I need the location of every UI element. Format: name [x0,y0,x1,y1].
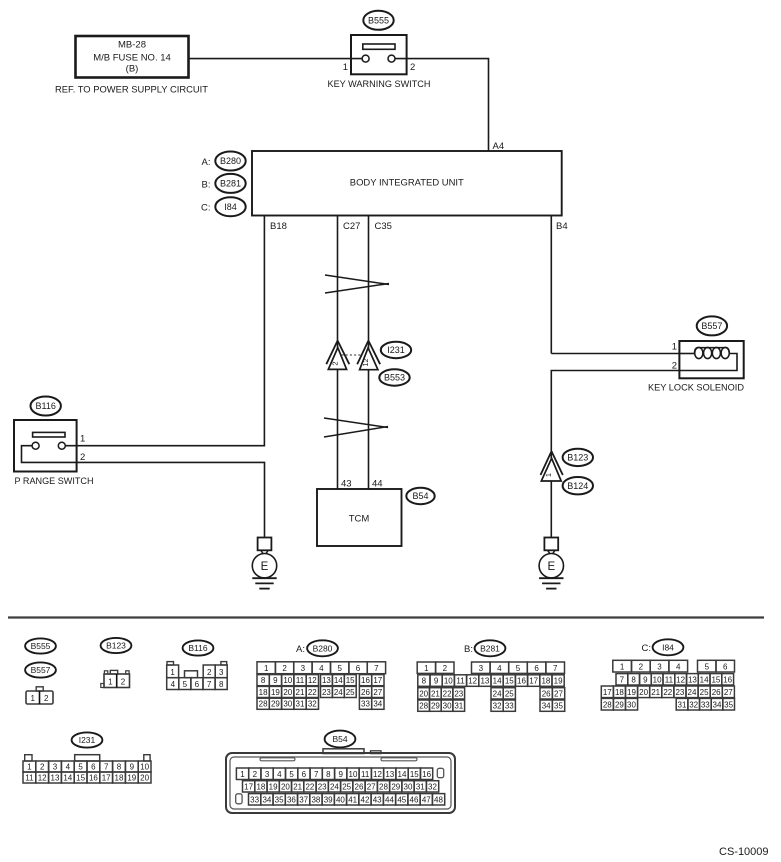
svg-text:13: 13 [51,773,60,782]
svg-text:5: 5 [78,762,83,771]
svg-text:24: 24 [688,688,697,697]
svg-text:4: 4 [66,762,71,771]
svg-text:30: 30 [404,782,413,791]
svg-text:1: 1 [620,662,625,671]
svg-text:8: 8 [261,676,266,685]
svg-text:28: 28 [419,702,428,711]
svg-text:2: 2 [639,662,644,671]
svg-text:B280: B280 [313,643,333,653]
svg-text:14: 14 [63,773,72,782]
svg-text:34: 34 [262,795,271,804]
svg-text:6: 6 [534,664,539,673]
svg-text:M/B FUSE NO. 14: M/B FUSE NO. 14 [93,53,171,64]
svg-text:19: 19 [554,677,563,686]
connector oval B54 (bottom) [325,731,356,748]
svg-text:1: 1 [264,664,269,673]
svg-text:44: 44 [372,479,383,490]
wire P range switch pin 2 to ground [77,462,265,538]
svg-text:5: 5 [337,664,342,673]
svg-text:8: 8 [117,762,122,771]
svg-text:20: 20 [639,688,648,697]
svg-text:21: 21 [431,689,440,698]
ground E right [548,550,550,554]
svg-text:29: 29 [431,702,440,711]
svg-text:B557: B557 [701,321,722,331]
svg-text:1: 1 [108,678,113,687]
svg-text:27: 27 [367,782,376,791]
svg-text:9: 9 [434,677,439,686]
svg-text:B124: B124 [567,481,588,491]
ground symbol right [539,577,563,579]
svg-text:15: 15 [410,770,419,779]
svg-text:E: E [261,561,269,573]
svg-text:34: 34 [542,702,551,711]
svg-text:2: 2 [253,770,258,779]
connector oval I231 [381,342,411,358]
svg-text:B116: B116 [188,643,207,653]
svg-text:30: 30 [283,700,292,709]
wire solenoid pin 2 down [551,371,679,460]
svg-text:26: 26 [542,689,551,698]
svg-text:10: 10 [444,677,453,686]
wire BIU C27 down [337,216,339,349]
svg-text:33: 33 [361,700,370,709]
svg-text:31: 31 [678,700,687,709]
inline connector triangle pin 12 (right) [357,341,368,365]
svg-text:BODY INTEGRATED UNIT: BODY INTEGRATED UNIT [350,178,464,189]
svg-text:32: 32 [493,702,502,711]
svg-text:46: 46 [410,795,419,804]
svg-text:C27: C27 [343,221,360,232]
svg-text:28: 28 [603,700,612,709]
svg-text:5: 5 [705,662,710,671]
svg-text:2: 2 [410,62,415,73]
P range switch [14,420,77,472]
svg-text:17: 17 [373,676,382,685]
svg-text:19: 19 [627,688,636,697]
svg-text:B123: B123 [106,641,126,651]
svg-text:17: 17 [529,677,538,686]
connector oval B555 [363,11,393,30]
svg-text:1: 1 [30,694,35,703]
svg-text:12: 12 [38,773,47,782]
ground terminal square left [258,538,272,551]
svg-text:1: 1 [544,473,553,477]
svg-text:37: 37 [299,795,308,804]
svg-text:2: 2 [282,664,287,673]
connector I231 pinout [25,755,32,761]
svg-text:14: 14 [398,770,407,779]
svg-text:3: 3 [219,668,224,677]
svg-text:23: 23 [322,688,331,697]
wire BIU B4 down [550,216,552,354]
svg-text:TCM: TCM [349,514,370,525]
svg-text:7: 7 [104,762,109,771]
svg-text:8: 8 [631,675,636,684]
svg-text:4: 4 [319,664,324,673]
svg-text:17: 17 [603,688,612,697]
svg-text:5: 5 [516,664,521,673]
svg-text:B281: B281 [480,643,500,653]
svg-text:39: 39 [324,795,333,804]
svg-text:B555: B555 [368,16,389,26]
svg-text:9: 9 [643,675,648,684]
svg-text:13: 13 [480,677,489,686]
svg-text:32: 32 [308,700,317,709]
svg-text:9: 9 [273,676,278,685]
svg-text:6: 6 [356,664,361,673]
separator line [8,616,764,618]
svg-text:44: 44 [385,795,394,804]
svg-text:7: 7 [553,664,558,673]
wire B4 to solenoid pin 1 [551,353,679,355]
svg-text:10: 10 [653,675,662,684]
svg-text:33: 33 [250,795,259,804]
connector B54 pins [236,768,248,780]
connector oval B123 [563,449,593,466]
svg-text:8: 8 [219,680,224,689]
svg-text:13: 13 [688,675,697,684]
svg-text:31: 31 [454,702,463,711]
svg-text:I84: I84 [662,642,674,652]
svg-text:B557: B557 [31,665,51,675]
svg-text:25: 25 [505,689,514,698]
connector oval B116 (bottom) [183,640,214,655]
svg-text:45: 45 [397,795,406,804]
svg-text:28: 28 [259,700,268,709]
svg-text:15: 15 [346,676,355,685]
svg-text:12: 12 [468,677,477,686]
svg-text:B281: B281 [220,179,241,189]
svg-text:16: 16 [89,773,98,782]
svg-text:20: 20 [283,688,292,697]
connector oval B54 (TCM) [406,488,434,504]
body integrated unit U1 [252,151,562,216]
ground symbol left [252,577,276,579]
svg-text:14: 14 [334,676,343,685]
svg-text:15: 15 [711,675,720,684]
svg-text:6: 6 [723,662,728,671]
svg-text:I231: I231 [79,735,96,745]
svg-text:KEY WARNING SWITCH: KEY WARNING SWITCH [328,79,431,90]
svg-text:B54: B54 [332,734,347,744]
svg-text:23: 23 [675,688,684,697]
svg-text:24: 24 [334,688,343,697]
svg-text:1: 1 [170,668,175,677]
svg-text:17: 17 [244,782,253,791]
connector B54 pinout shell [323,749,364,754]
svg-text:2: 2 [40,762,45,771]
svg-text:11: 11 [25,773,34,782]
svg-text:8: 8 [326,770,331,779]
svg-text:10: 10 [283,676,292,685]
svg-text:15: 15 [76,773,85,782]
connector oval B553 [379,369,409,385]
inline connector triangle pin 1 (B123/B124) [541,451,552,475]
twisted pair symbol upper [325,275,389,285]
svg-text:20: 20 [419,689,428,698]
svg-text:MB-28: MB-28 [118,40,146,51]
svg-text:3: 3 [53,762,58,771]
svg-text:27: 27 [373,688,382,697]
svg-text:2: 2 [330,361,339,365]
svg-text:47: 47 [422,795,431,804]
svg-text:6: 6 [91,762,96,771]
svg-text:34: 34 [373,700,382,709]
fuse box MB-28 [76,36,189,78]
svg-text:34: 34 [713,700,722,709]
svg-text:6: 6 [302,770,307,779]
svg-text:16: 16 [361,676,370,685]
svg-text:22: 22 [308,688,317,697]
svg-text:B18: B18 [270,221,287,232]
svg-text:3: 3 [301,664,306,673]
svg-text:C:: C: [201,203,211,214]
twisted pair symbol lower [324,418,388,428]
svg-text:38: 38 [311,795,320,804]
svg-text:9: 9 [338,770,343,779]
svg-text:B555: B555 [31,641,51,651]
svg-text:18: 18 [615,688,624,697]
svg-text:1: 1 [27,762,32,771]
svg-text:11: 11 [665,675,674,684]
svg-text:(B): (B) [126,64,139,75]
svg-text:7: 7 [374,664,379,673]
svg-text:I84: I84 [224,202,237,212]
svg-text:1: 1 [343,62,348,73]
wire BIU B18 down [263,216,265,447]
svg-text:7: 7 [314,770,319,779]
svg-text:33: 33 [505,702,514,711]
svg-text:7: 7 [207,680,212,689]
svg-text:10: 10 [140,762,149,771]
svg-text:16: 16 [517,677,526,686]
svg-text:16: 16 [422,770,431,779]
svg-text:13: 13 [322,676,331,685]
svg-text:1: 1 [240,770,245,779]
connector B116 pinout [167,662,174,665]
svg-text:15: 15 [505,677,514,686]
svg-text:B123: B123 [567,453,588,463]
dashed pairing line between triangles [342,354,363,356]
svg-text:17: 17 [102,773,111,782]
svg-text:11: 11 [456,677,465,686]
svg-text:12: 12 [308,676,317,685]
wire switch pin 2 to BIU A4 [395,59,489,151]
wire P range switch pin 1 to B18 node [65,445,264,447]
svg-text:19: 19 [127,773,136,782]
wire triangle right to TCM 44 [368,370,370,489]
svg-text:C35: C35 [375,221,392,232]
svg-text:11: 11 [296,676,305,685]
svg-text:18: 18 [541,677,550,686]
svg-text:3: 3 [657,662,662,671]
svg-text:25: 25 [342,782,351,791]
svg-text:29: 29 [615,700,624,709]
connector oval B123 (bottom) [101,638,132,653]
key warning switch B555 [351,35,407,74]
svg-text:2: 2 [207,668,212,677]
wire triangle left to TCM 43 [337,369,339,489]
svg-text:CS-10009: CS-10009 [719,846,769,858]
svg-text:21: 21 [296,688,305,697]
svg-text:12: 12 [373,770,382,779]
svg-text:22: 22 [305,782,314,791]
connector oval B124 [563,477,593,494]
svg-text:REF. TO POWER SUPPLY CIRCUIT: REF. TO POWER SUPPLY CIRCUIT [55,85,208,96]
svg-text:4: 4 [277,770,282,779]
svg-text:B116: B116 [36,401,56,411]
svg-text:18: 18 [259,688,268,697]
ground terminal square right [544,538,558,551]
svg-text:B:: B: [202,179,211,190]
svg-text:B:: B: [464,644,473,655]
TCM unit [317,489,402,546]
ground E left [261,550,263,554]
svg-text:21: 21 [651,688,660,697]
svg-text:23: 23 [454,689,463,698]
connector oval B557 [697,316,727,335]
svg-text:13: 13 [385,770,394,779]
svg-text:10: 10 [349,770,358,779]
svg-text:48: 48 [434,795,443,804]
svg-text:28: 28 [379,782,388,791]
svg-text:24: 24 [330,782,339,791]
svg-text:18: 18 [115,773,124,782]
svg-text:29: 29 [271,700,280,709]
svg-text:B4: B4 [556,221,568,232]
svg-text:31: 31 [296,700,305,709]
svg-text:26: 26 [712,688,721,697]
svg-text:12: 12 [361,358,370,366]
svg-text:20: 20 [281,782,290,791]
svg-text:4: 4 [497,664,502,673]
svg-text:4: 4 [676,662,681,671]
connector oval B116 [31,397,61,416]
svg-text:36: 36 [287,795,296,804]
svg-text:35: 35 [554,702,563,711]
svg-text:42: 42 [361,795,370,804]
svg-text:19: 19 [271,688,280,697]
svg-text:27: 27 [554,689,563,698]
svg-text:26: 26 [361,688,370,697]
svg-text:P RANGE SWITCH: P RANGE SWITCH [15,476,94,487]
svg-text:14: 14 [700,675,709,684]
svg-text:32: 32 [689,700,698,709]
wire BIU C35 down [368,216,370,349]
svg-text:19: 19 [269,782,278,791]
svg-text:6: 6 [195,680,200,689]
svg-text:B54: B54 [412,491,428,501]
wire fuse box to key warning switch pin 1 [189,58,363,60]
svg-text:40: 40 [336,795,345,804]
svg-text:27: 27 [724,688,733,697]
svg-text:18: 18 [256,782,265,791]
svg-text:23: 23 [318,782,327,791]
svg-text:22: 22 [663,688,672,697]
svg-text:32: 32 [428,782,437,791]
svg-text:A:: A: [296,644,305,655]
svg-text:33: 33 [701,700,710,709]
svg-text:43: 43 [341,479,352,490]
svg-text:KEY LOCK SOLENOID: KEY LOCK SOLENOID [648,383,744,394]
svg-text:4: 4 [171,680,176,689]
connector I84 pinout [613,660,632,672]
svg-text:25: 25 [346,688,355,697]
connector oval I231 (bottom) [72,732,103,747]
svg-text:43: 43 [373,795,382,804]
svg-text:24: 24 [493,689,502,698]
connector B281 pinout [417,662,435,673]
connector oval B555 (bottom) [25,638,56,653]
svg-text:30: 30 [627,700,636,709]
inline connector triangle pin 2 (left) [326,341,337,365]
connector B555/B557 2-pin pinout [36,687,43,691]
svg-text:I231: I231 [387,345,405,355]
svg-text:31: 31 [416,782,425,791]
svg-text:29: 29 [391,782,400,791]
svg-text:2: 2 [44,694,49,703]
svg-text:25: 25 [700,688,709,697]
svg-text:B553: B553 [384,373,405,383]
svg-text:16: 16 [723,675,732,684]
svg-text:E: E [547,561,555,573]
svg-text:A:: A: [202,157,211,168]
svg-text:B280: B280 [220,156,241,166]
svg-text:2: 2 [121,678,126,687]
svg-text:11: 11 [361,770,370,779]
svg-text:5: 5 [289,770,294,779]
svg-text:14: 14 [493,677,502,686]
svg-text:21: 21 [293,782,302,791]
svg-text:2: 2 [80,452,85,463]
key lock solenoid L1 [679,341,743,378]
svg-text:1: 1 [672,342,677,353]
svg-text:1: 1 [80,434,85,445]
svg-text:1: 1 [424,664,429,673]
svg-text:35: 35 [275,795,284,804]
svg-text:3: 3 [265,770,270,779]
svg-text:22: 22 [443,689,452,698]
svg-text:41: 41 [348,795,357,804]
svg-text:12: 12 [676,675,685,684]
svg-text:8: 8 [422,677,427,686]
wire triangle to right ground [550,481,552,538]
svg-text:35: 35 [724,700,733,709]
connector B123 2-pin pinout [104,671,107,674]
connector B280 pinout [257,662,275,674]
svg-text:9: 9 [130,762,135,771]
svg-text:26: 26 [355,782,364,791]
connector oval B557 (bottom) [25,662,56,677]
svg-text:7: 7 [620,675,625,684]
svg-text:3: 3 [479,664,484,673]
svg-text:20: 20 [140,773,149,782]
svg-text:5: 5 [183,680,188,689]
svg-text:30: 30 [443,702,452,711]
svg-text:2: 2 [443,664,448,673]
svg-text:C:: C: [642,643,652,654]
